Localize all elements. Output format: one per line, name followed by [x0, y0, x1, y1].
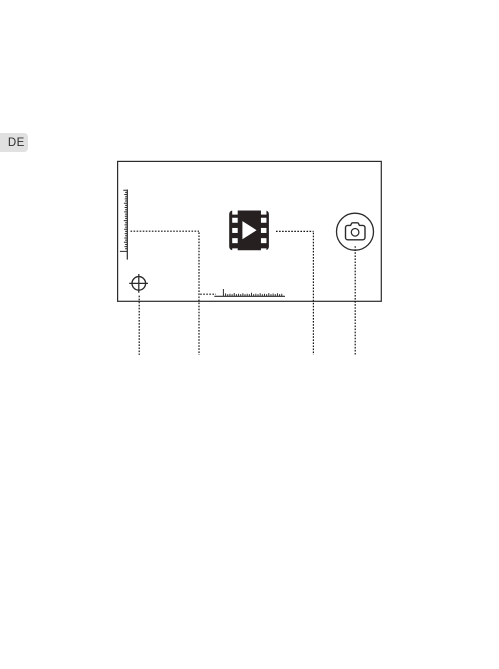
callout dotted: crosshair down	[138, 296, 140, 355]
focus crosshair	[129, 274, 148, 293]
vertical zoom scale ticks	[120, 190, 127, 251]
callout dotted: lead-in to bottom scale	[200, 293, 216, 295]
callout dotted: film icon down	[312, 233, 314, 355]
camera display frame	[118, 161, 382, 301]
vertical zoom scale line	[126, 190, 128, 260]
callout dotted: camera down	[354, 246, 356, 355]
language tab DE	[0, 133, 28, 152]
bottom exposure scale ticks	[223, 289, 281, 296]
bottom exposure scale baseline	[214, 295, 285, 297]
camera glyph body	[346, 223, 366, 240]
camera glyph lens	[351, 229, 359, 237]
callout dotted: vertical scale horizontal	[131, 230, 200, 232]
film/video icon	[229, 208, 269, 254]
callout dotted: vertical scale down	[198, 232, 200, 355]
photo button circle	[337, 213, 374, 250]
callout dotted: film icon horizontal	[276, 230, 314, 232]
